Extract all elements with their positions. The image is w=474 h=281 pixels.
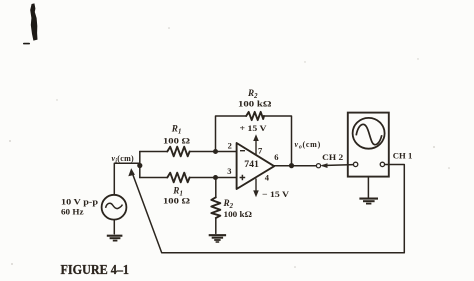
- svg-text:100 kΩ: 100 kΩ: [238, 98, 272, 108]
- resistor R2 feedback: [246, 112, 264, 120]
- ground: scope: [359, 199, 378, 204]
- wire: top input branch to pin 2: [140, 151, 237, 153]
- op-amp minus input sign: [240, 150, 245, 152]
- terminal: CH2 open circle: [316, 164, 320, 168]
- svg-text:CH 1: CH 1: [393, 151, 413, 160]
- svg-text:4: 4: [265, 173, 270, 183]
- arrowhead: CH1 probe at vi node: [128, 168, 135, 176]
- svg-text:vo(cm): vo(cm): [295, 140, 322, 151]
- ground: R2: [209, 235, 226, 242]
- node: pin3 ground junction: [213, 175, 218, 180]
- pin 4 -15V arrow: [255, 179, 257, 194]
- wire: R2 ground branch: [215, 178, 217, 234]
- resistor R1 bottom: [167, 173, 189, 183]
- wire: feedback loop: [216, 116, 292, 166]
- node: vi junction: [137, 163, 142, 168]
- op-amp plus input sign: [240, 175, 246, 181]
- svg-text:741: 741: [244, 159, 259, 170]
- svg-text:CH 2: CH 2: [322, 153, 343, 162]
- oscilloscope body: [348, 113, 389, 177]
- wire: generator to vi node: [114, 163, 140, 195]
- oscilloscope screen circle: [353, 118, 385, 149]
- svg-text:+ 15 V: + 15 V: [240, 123, 268, 133]
- resistor R2 to ground: [211, 197, 220, 218]
- wire: op-amp output to CH2 terminal: [274, 165, 353, 166]
- svg-text:100 Ω: 100 Ω: [163, 137, 191, 146]
- terminal: scope CH2 input: [353, 162, 357, 166]
- node: output junction: [289, 163, 294, 168]
- svg-text:60 Hz: 60 Hz: [61, 208, 84, 217]
- svg-text:2: 2: [228, 140, 232, 150]
- svg-text:100 Ω: 100 Ω: [163, 197, 191, 206]
- svg-text:vi(cm): vi(cm): [112, 154, 135, 165]
- op-amp U1 741 triangle: [237, 143, 275, 189]
- wire: CH1 probe loop: [132, 165, 405, 253]
- wire: bottom input branch to pin 3: [140, 177, 237, 179]
- wire: scope to ground: [367, 177, 369, 198]
- svg-text:3: 3: [227, 166, 231, 176]
- oscilloscope screen sine: [356, 124, 382, 144]
- svg-text:− 15 V: − 15 V: [262, 189, 290, 199]
- arrowhead: CH2 probe: [320, 163, 327, 168]
- pin 7 +15V arrow: [255, 138, 257, 155]
- resistor R1 top: [167, 147, 189, 157]
- svg-text:100 kΩ: 100 kΩ: [224, 209, 253, 219]
- ground: generator: [107, 236, 123, 241]
- generator source 10V pp: [102, 195, 127, 220]
- svg-text:10 V p-p: 10 V p-p: [61, 197, 99, 206]
- svg-text:6: 6: [274, 152, 278, 162]
- terminal: scope CH1 input: [380, 162, 384, 166]
- wire: node vertical branch: [139, 152, 141, 178]
- node: pin2 feedback junction: [213, 149, 218, 154]
- wire: generator to ground: [113, 220, 115, 234]
- svg-text:FIGURE 4–1: FIGURE 4–1: [61, 263, 130, 278]
